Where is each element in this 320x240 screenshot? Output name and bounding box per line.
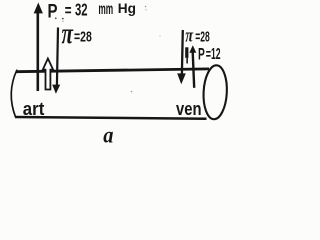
svg-text:ven: ven (176, 98, 202, 119)
wire: vessel top wall (17, 69, 210, 72)
wire: vessel bottom wall (15, 117, 207, 119)
label P =12 (198, 44, 221, 63)
arrow P=12 up (right, small) (189, 45, 196, 88)
svg-text:=28: =28 (74, 30, 92, 46)
node: ink blob left of small arrow (185, 47, 188, 58)
arrow pi=28 down (left) (52, 28, 60, 94)
svg-text:a: a (103, 123, 113, 148)
node: vessel right end ellipse (202, 65, 228, 120)
svg-text:P: P (198, 44, 205, 63)
label pi =28 (right) (185, 25, 210, 46)
hollow filtration arrow up (left, net outward) (43, 59, 53, 90)
arrow pi=28 down (right, long) (177, 30, 186, 84)
svg-text:=28: =28 (195, 30, 210, 46)
svg-text:32: 32 (75, 0, 88, 20)
node: scan speck above left pi (62, 18, 64, 20)
svg-text:Hg: Hg (118, 0, 136, 16)
svg-text:mm: mm (98, 1, 113, 18)
svg-text:P: P (48, 0, 58, 22)
label pi=28 (left) (62, 17, 92, 50)
svg-text:art: art (23, 98, 45, 119)
svg-text:12: 12 (211, 46, 221, 63)
label P = 32 mm Hg (48, 0, 137, 22)
svg-text:π: π (62, 17, 74, 50)
capillary pressure diagram (0, 0, 251, 148)
node: scan speck mid field (131, 91, 133, 93)
node: vessel left open end arc (11, 70, 17, 118)
svg-text:π: π (185, 25, 193, 46)
arrow P=32 up (left) (34, 3, 43, 92)
